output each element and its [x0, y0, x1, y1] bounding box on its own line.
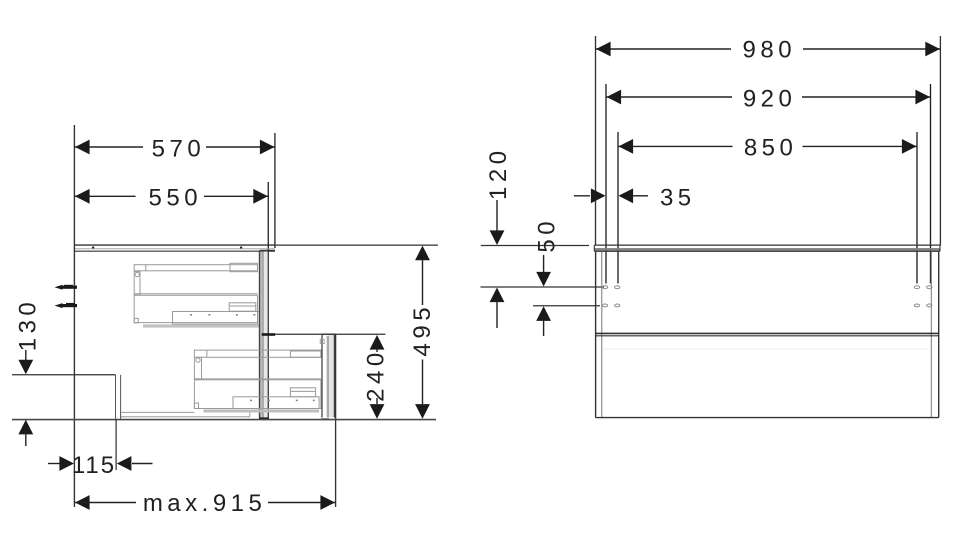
- mounting holes left: [602, 286, 620, 307]
- dimension 240 (rotated): [362, 335, 389, 419]
- extension line 570 right: [274, 133, 276, 248]
- front view drawer divider: [596, 333, 939, 335]
- svg-text:50: 50: [533, 217, 560, 253]
- leader line hole row 1: [481, 286, 605, 288]
- leader line hole row 2: [533, 305, 600, 307]
- svg-text:850: 850: [744, 135, 798, 162]
- lower drawer slide dots: [250, 400, 315, 402]
- extension line 980 left: [595, 36, 597, 245]
- extension line max915 right: [335, 335, 337, 508]
- svg-text:240: 240: [362, 348, 389, 402]
- front view top slab: [594, 245, 940, 251]
- extension line left (wall/back): [73, 125, 75, 245]
- wall screw bottom: [55, 303, 78, 308]
- dimension 35: [574, 184, 696, 211]
- lower drawer shadows: [204, 410, 320, 413]
- dimension max.915: [75, 490, 336, 517]
- dimension 115: [48, 419, 153, 479]
- lower drawer internals (gray, pulled out): [194, 350, 321, 408]
- extension line 920 right (down to hole): [930, 84, 932, 284]
- wall screw top: [55, 285, 78, 290]
- leader line top of cabinet (left): [481, 245, 589, 247]
- front view bottom edge: [596, 417, 939, 419]
- bottom reference line: [12, 419, 436, 421]
- cabinet back edge / extension down: [73, 245, 75, 507]
- svg-text:495: 495: [409, 303, 436, 357]
- svg-text:35: 35: [660, 184, 696, 211]
- svg-text:130: 130: [14, 298, 41, 352]
- dimension 120 (rotated): [485, 146, 512, 328]
- extension line 980 right: [939, 36, 941, 246]
- dimension 850: [618, 135, 917, 162]
- upper drawer internals (gray): [134, 263, 259, 324]
- top slab (countertop) side profile: [74, 245, 275, 251]
- svg-text:550: 550: [149, 185, 203, 212]
- mounting holes right: [914, 286, 932, 307]
- front view faint reflection line: [603, 348, 930, 350]
- dimension 570: [74, 135, 275, 162]
- svg-text:115: 115: [72, 452, 116, 479]
- svg-text:120: 120: [485, 146, 512, 200]
- upper drawer slide dots: [190, 314, 255, 316]
- front view cabinet body: [596, 252, 939, 418]
- svg-text:920: 920: [743, 85, 797, 112]
- dimension 920: [606, 85, 931, 112]
- divider leader to 240 dim: [268, 333, 385, 335]
- dimension 550: [74, 185, 268, 212]
- extension line 550 right: [267, 182, 269, 252]
- upper drawer shadow: [143, 324, 259, 327]
- dimension 50 (rotated): [533, 217, 560, 336]
- black rail stopper at divider: [262, 333, 275, 336]
- dimension 130 (rotated): [14, 298, 41, 446]
- extension line 920 left (down to hole): [605, 84, 607, 284]
- cabinet front panel (full height, side profile): [259, 251, 275, 420]
- dimension 980: [596, 37, 941, 64]
- svg-text:max.915: max.915: [143, 490, 267, 517]
- wall mount rail (bottom-left step): [12, 375, 121, 419]
- lower drawer front panel (pulled out): [320, 334, 335, 420]
- leader line to 495 dim (top surface): [275, 244, 438, 246]
- extension line 850 left (down to hole): [617, 132, 619, 284]
- extension line 850 right (down to hole): [916, 132, 918, 284]
- svg-text:570: 570: [152, 135, 206, 162]
- dimension 495 (rotated): [409, 246, 436, 419]
- svg-text:980: 980: [743, 37, 797, 64]
